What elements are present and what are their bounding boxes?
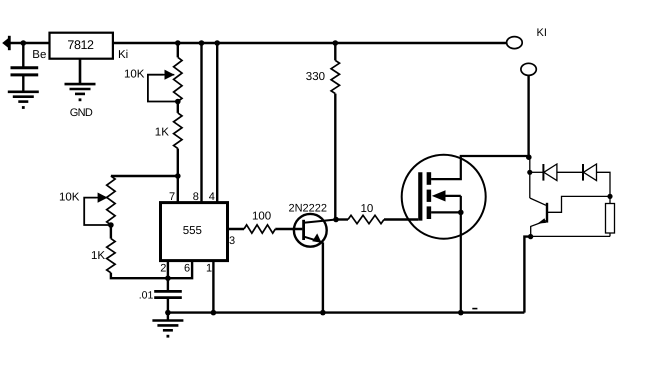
label 10 (361, 203, 374, 215)
MOSFET Q2 body circle (402, 155, 486, 239)
wire 1K to pin7 (177, 149, 179, 204)
wire emitter to rail (322, 242, 324, 312)
regulator U-7812 body (50, 33, 113, 59)
label pin 1 (206, 263, 212, 275)
wire pin 1 to ground rail (212, 261, 214, 313)
input terminal arrow (Be) (2, 36, 10, 50)
node rail/pin8 branch (199, 40, 205, 46)
wire rail to R330 (334, 43, 336, 60)
svg-text:7: 7 (169, 191, 175, 203)
svg-text:2N2222: 2N2222 (289, 203, 328, 215)
transistor Q3 base lead (530, 198, 546, 205)
wire 7812 ground stub (79, 59, 82, 84)
label pin 3 (229, 235, 235, 247)
terminal (lower) (521, 63, 536, 75)
capacitor .01 (154, 291, 182, 297)
svg-text:1K: 1K (155, 127, 169, 139)
ground (main) (152, 321, 183, 338)
label pin 6 (184, 263, 190, 275)
svg-text:555: 555 (183, 225, 202, 237)
terminal KI (top) (507, 37, 523, 49)
wire D2 to resistor node (597, 172, 611, 196)
wire pin 2 down (167, 261, 169, 279)
ground (7812 GND) (65, 84, 96, 101)
label 7812 (67, 38, 94, 52)
wire pin 3 out (228, 228, 245, 230)
label Be (32, 49, 46, 61)
capacitor C-in (11, 68, 39, 75)
label 555 (183, 225, 202, 237)
resistor 100 (244, 225, 275, 233)
label pin 8 (193, 191, 199, 203)
diode D1 (543, 164, 557, 181)
label pin 7 (169, 191, 175, 203)
node cap/rail junction (165, 310, 171, 316)
svg-text:100: 100 (252, 210, 271, 222)
node rail/330 branch (333, 40, 339, 46)
svg-text:3: 3 (229, 235, 235, 247)
label 2N2222 (289, 203, 328, 215)
wire return to ground rail (524, 237, 530, 313)
svg-text:2: 2 (160, 263, 166, 275)
node emitter/return junction (528, 234, 533, 239)
node pin1/rail junction (211, 310, 217, 316)
wire R330 to collector node (334, 94, 336, 220)
wire bottom ground rail (168, 311, 525, 313)
resistor 1K (upper) (174, 113, 182, 149)
wire to diode D1 (530, 171, 544, 173)
wire R100 to base (275, 228, 302, 230)
node source/arrow junction (458, 210, 464, 216)
resistor R-load (box) (606, 196, 615, 236)
label pin 2 (160, 263, 166, 275)
node lower pot wiper tie (108, 222, 114, 228)
node collector/R10 junction (333, 217, 339, 223)
label 1K (upper) (155, 127, 169, 139)
svg-text:1: 1 (206, 263, 212, 275)
node pins2-6/1K/C junction (165, 275, 171, 281)
label Ki (118, 49, 128, 61)
transistor Q3 collector lead (547, 196, 610, 212)
label minus (472, 308, 477, 310)
transistor Q3 emitter lead (531, 218, 547, 236)
node diode branch (527, 170, 532, 175)
svg-text:Ki: Ki (118, 49, 128, 61)
node input/C-filter junction (21, 40, 27, 46)
MOSFET channel segments (427, 172, 432, 219)
node lower-pot branch (175, 173, 181, 179)
svg-text:10K: 10K (124, 69, 145, 81)
MOSFET body arrow (432, 190, 461, 201)
wire node to cap .01 (167, 278, 169, 290)
wire drain node down (thin) (529, 157, 531, 198)
label 330 (306, 71, 325, 83)
resistor 1K (lower) (107, 239, 115, 273)
label GND (70, 107, 93, 119)
svg-text:4: 4 (209, 191, 215, 203)
wire node to R10 (336, 218, 348, 220)
resistor 330 (331, 60, 339, 93)
wire pot to 1K (lower) (110, 225, 112, 239)
wire branch to lower pot (111, 175, 178, 177)
label 10K (lower) (59, 192, 80, 204)
IC 555 body (161, 203, 228, 261)
resistor 10 (348, 215, 384, 223)
node rail/pot branch (175, 40, 181, 46)
wire lower pot wiper bracket (84, 198, 111, 225)
label 10K (upper) (124, 69, 145, 81)
node pot wiper tie (175, 99, 181, 105)
wire rail to pin 8 (200, 43, 202, 204)
svg-text:GND: GND (70, 107, 93, 119)
transistor Q1 2N2222 (294, 214, 336, 247)
svg-text:Be: Be (32, 49, 46, 61)
wire rail to pin 4 (216, 43, 218, 204)
MOSFET drain lead (431, 156, 528, 179)
wire cap branch down (22, 43, 24, 67)
svg-text:330: 330 (306, 71, 325, 83)
diode D2 (583, 164, 597, 181)
wire pot to R-1K (177, 102, 179, 113)
node rail/pin4 branch (214, 40, 220, 46)
svg-text:1K: 1K (91, 250, 105, 262)
svg-text:8: 8 (193, 191, 199, 203)
wire 1K to pins 2/6 (111, 273, 168, 278)
node diode/collector/resistor junction (607, 194, 612, 199)
node emitter/rail junction (320, 310, 326, 316)
wire terminal down to drain node (527, 75, 529, 157)
svg-text:KI: KI (537, 27, 547, 39)
wire pot wiper bracket (148, 75, 178, 102)
label .01 (139, 290, 154, 302)
node drain/terminal junction (526, 154, 532, 160)
wire cap to ground (22, 76, 24, 92)
wire top rail (12V) (113, 42, 507, 44)
label KI (537, 27, 547, 39)
wire emitter return (thin) (531, 235, 610, 237)
potentiometer 10K (lower) (97, 176, 116, 225)
svg-text:7812: 7812 (67, 38, 94, 52)
wire rail to pot R-10K (177, 43, 179, 57)
label 1K (lower) (91, 250, 105, 262)
ground (input filter) (8, 92, 39, 109)
wire input to 7812 (8, 42, 50, 44)
wire D1 to D2 (557, 171, 583, 173)
svg-text:.01: .01 (139, 290, 154, 302)
label pin 4 (209, 191, 215, 203)
MOSFET source lead (431, 196, 461, 313)
transistor Q3 bar (546, 203, 548, 223)
MOSFET gate bar (418, 172, 422, 220)
svg-text:10: 10 (361, 203, 374, 215)
node source/rail junction (458, 310, 464, 316)
wire cap to rail and ground stub (167, 299, 169, 321)
wire R10 to gate (384, 218, 418, 220)
potentiometer 10K (upper) (164, 57, 183, 101)
label 100 (252, 210, 271, 222)
svg-text:6: 6 (184, 263, 190, 275)
svg-text:10K: 10K (59, 192, 80, 204)
wire pin 6 down (168, 261, 192, 279)
